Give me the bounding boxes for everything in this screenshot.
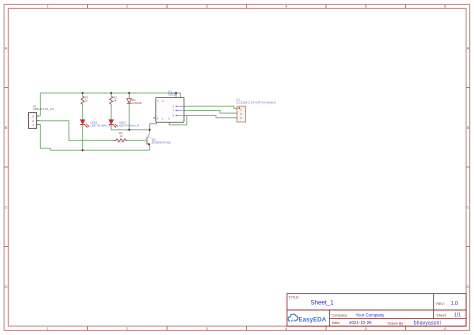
wire U1 pin 6 to U2 pin 3 [184,116,237,118]
transistor Q2 [144,133,170,145]
wire rail to D2 anode [128,93,130,99]
svg-text:Sheet_1: Sheet_1 [311,300,335,307]
wire U1 pin 5 wrap to pin 6 net [169,116,187,125]
wire D2 cathode to node K [128,104,130,130]
wire rail to R2 top lead [110,93,112,96]
svg-text:B: B [5,125,8,130]
svg-text:CC2008-2.54-03P-14-00A(H): CC2008-2.54-03P-14-00A(H) [236,101,275,105]
wire VCC top rail from P1 pin 3 to U1 [40,93,180,116]
svg-text:TITLE:: TITLE: [289,295,300,299]
svg-text:Date:: Date: [332,321,341,325]
wire P1 pin 2 to R3 left lead [40,121,114,141]
resistor R2 [110,95,118,104]
wire rail to R1 top lead [82,93,84,96]
diode D2 [127,98,142,105]
junction D2 top on VCC rail [128,92,130,94]
svg-text:1.0: 1.0 [451,301,458,307]
svg-text:A: A [467,45,470,50]
junction U1 pin 8 drop on VCC rail [175,92,177,94]
svg-text:2N3904(TO-92): 2N3904(TO-92) [152,140,171,144]
wire R3 right lead to Q2 base [127,139,147,141]
svg-text:C: C [5,204,8,209]
wire rail wrap to U1 pin 4 [179,93,181,98]
title block text fields [289,295,461,326]
svg-text:HDR-M-2.54_1x3: HDR-M-2.54_1x3 [33,107,54,111]
svg-text:1N4148: 1N4148 [132,101,142,105]
svg-text:bhavyasoni: bhavyasoni [414,321,441,327]
svg-text:NE555: NE555 [168,92,177,96]
wire R2 bottom to LED2 anode [110,104,112,119]
connector P1 [29,104,55,128]
svg-text:EasyEDA: EasyEDA [299,316,327,323]
junction R2 top on VCC rail [110,92,112,94]
resistor R1 [81,95,89,104]
connector U2 [235,98,276,122]
LED LED2 [109,120,139,128]
svg-text:C: C [466,204,469,209]
svg-text:D: D [466,284,469,289]
U2 pin 1 marker [239,107,240,108]
EasyEDA logo [288,314,327,323]
resistor R3 [114,131,128,142]
svg-text:D: D [5,284,8,289]
wire U1 pin 1 to node K [150,122,157,130]
svg-text:Drawn By:: Drawn By: [388,321,405,325]
svg-text:Company:: Company: [332,314,348,318]
title block [287,294,466,327]
svg-text:LED-TH-3mm_R: LED-TH-3mm_R [119,124,139,128]
svg-text:LED-TH-3Mm_R: LED-TH-3Mm_R [91,124,111,128]
svg-text:REV:: REV: [436,302,444,306]
junction D2 cathode on node K [128,129,130,131]
wire rail drop to U1 pin 8 [175,93,177,98]
svg-text:A: A [5,45,8,50]
timer IC U1 [153,89,184,122]
LED LED1 [80,120,110,128]
svg-text:Your Company: Your Company [356,313,386,318]
junction R1 top on VCC rail [82,92,84,94]
wire node K to Q2 collector [149,130,151,133]
wire LED1 cathode to ground rail [82,125,84,150]
wire U1 pin 7 to U2 pin 2 [184,111,237,114]
svg-text:Sheet:: Sheet: [436,314,446,318]
svg-text:B: B [467,125,470,130]
junction LED1 cathode on ground rail [82,149,84,151]
wire Q2 emitter to ground rail [149,145,151,151]
svg-text:1/1: 1/1 [454,313,461,319]
wire R1 bottom to LED1 anode [82,104,84,119]
wire U1 pin 3 to U2 pin 1 [184,106,237,108]
wire P1 pin 1 ground rail [40,125,150,151]
wire LED2 cathode to node K [111,125,149,130]
junction node K at Q2 collector [149,129,151,131]
svg-text:2021-10-29: 2021-10-29 [349,320,372,325]
